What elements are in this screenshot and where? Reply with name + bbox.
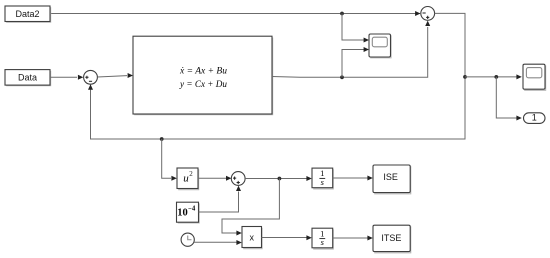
wire Sum2 output feedback path bbox=[88, 13, 465, 139]
wire clock to product input 2 bbox=[194, 240, 242, 245]
clock block bbox=[181, 233, 194, 246]
svg-text:ẋ = Ax + Bu: ẋ = Ax + Bu bbox=[179, 66, 227, 77]
scope Scope2 bbox=[523, 64, 546, 90]
node junction on output line bbox=[340, 75, 344, 79]
wire from Data2 to Sum2 bbox=[50, 11, 421, 16]
wire branch to Scope1 input 1 bbox=[342, 14, 369, 43]
wire integrator1 to ISE bbox=[333, 176, 373, 181]
outport block 1 bbox=[524, 113, 546, 124]
node junction on Data2 line bbox=[340, 12, 344, 16]
node junction on Sum3 output bbox=[278, 177, 282, 181]
wire product to integrator2 bbox=[262, 235, 312, 240]
integrator block 1/s (ISE path) bbox=[312, 168, 333, 189]
display block ISE bbox=[373, 165, 411, 194]
svg-text:ITSE: ITSE bbox=[381, 233, 401, 243]
node junction for outport branch bbox=[494, 75, 498, 79]
wire state-space output to Sum2 bottom input bbox=[272, 21, 430, 78]
svg-text:y = Cx + Du: y = Cx + Du bbox=[179, 79, 227, 90]
wire branch down to u2 block bbox=[162, 139, 177, 181]
svg-text:x: x bbox=[249, 233, 254, 243]
svg-text:2: 2 bbox=[189, 170, 193, 178]
svg-text:Data: Data bbox=[18, 72, 37, 82]
constant block 10^-4 bbox=[177, 202, 200, 223]
svg-text:10: 10 bbox=[177, 208, 188, 219]
source block Data bbox=[5, 70, 51, 86]
wire branch to Scope2 bbox=[465, 74, 522, 79]
scope Scope1 bbox=[369, 34, 391, 58]
svg-text:−4: −4 bbox=[188, 206, 196, 213]
node junction on vertical error line bbox=[463, 75, 467, 79]
source block Data2 bbox=[5, 6, 51, 22]
sum junction Sum2 bbox=[421, 6, 435, 20]
wire u2 to Sum3 bbox=[198, 176, 231, 181]
math block u^2 bbox=[177, 168, 199, 190]
svg-text:1: 1 bbox=[532, 113, 537, 123]
state-space block U1 bbox=[133, 36, 273, 115]
wire Data to Sum1 bbox=[50, 75, 83, 80]
wire branch to outport 1 bbox=[496, 77, 522, 121]
wire branch to Scope1 input 2 bbox=[342, 47, 369, 77]
node junction on feedback line bbox=[160, 137, 164, 141]
wire branch down to product input 1 bbox=[222, 179, 279, 236]
wire Sum1 to state-space bbox=[97, 73, 133, 78]
svg-text:ISE: ISE bbox=[383, 172, 398, 182]
sum junction Sum1 bbox=[84, 70, 98, 84]
integrator block 1/s (ITSE path) bbox=[312, 228, 333, 249]
product block bbox=[242, 227, 262, 249]
display block ITSE bbox=[373, 225, 411, 253]
wire 10^-4 to Sum3 bottom input bbox=[199, 186, 242, 212]
wire integrator2 to ITSE bbox=[333, 236, 373, 241]
sum junction Sum3 bbox=[231, 172, 245, 186]
svg-text:Data2: Data2 bbox=[15, 9, 39, 19]
wire Sum3 output to integrator1 bbox=[245, 176, 312, 181]
